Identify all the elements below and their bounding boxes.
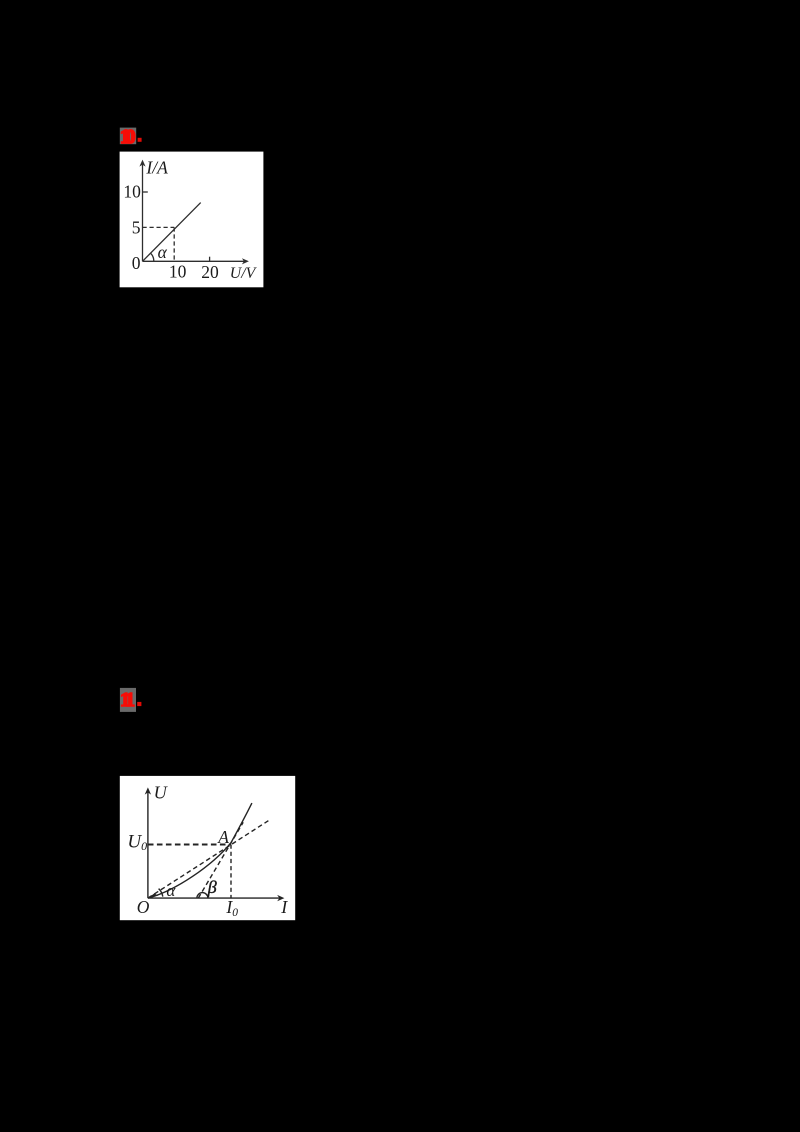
chart 1 white panel <box>120 152 264 288</box>
chart1 dashed line I=5 <box>143 226 175 228</box>
chart2 secant arrowhead at origin <box>148 893 158 898</box>
chart2 y-axis <box>147 792 149 898</box>
svg-text:5: 5 <box>132 217 141 237</box>
chart2 dashed vertical I0 line <box>230 845 232 899</box>
chart1 x-axis <box>143 260 245 262</box>
badge Q10 background box <box>120 128 136 145</box>
chart1 x-axis arrowhead <box>242 258 249 264</box>
chart1 dashed line U=10 <box>173 227 175 261</box>
svg-text:β: β <box>207 877 217 897</box>
svg-text:A: A <box>217 827 229 847</box>
chart1 tick at I=10 <box>143 191 148 193</box>
chart2 dashed tangent line at A <box>198 822 243 898</box>
svg-text:O: O <box>137 897 150 917</box>
chart1 y-axis <box>142 164 144 261</box>
chart2 x-axis arrowhead <box>277 895 284 901</box>
svg-text:U/V: U/V <box>230 265 258 282</box>
svg-text:U: U <box>154 783 169 803</box>
svg-text:20: 20 <box>201 262 219 282</box>
svg-text:I: I <box>280 897 288 917</box>
chart2 y-axis arrowhead <box>145 787 151 794</box>
chart1 tick at U=20 <box>209 257 211 262</box>
chart2 x-axis <box>148 897 280 899</box>
chart2 dashed secant line OA <box>148 821 269 899</box>
badge Q10 red period <box>138 138 142 142</box>
badge Q11 background box <box>120 688 136 712</box>
chart1 angle alpha arc <box>150 253 154 261</box>
chart1 line I=0.5U <box>143 203 201 262</box>
svg-text:α: α <box>158 242 168 262</box>
chart2 U-I curve <box>148 803 252 898</box>
chart2 dashed horizontal U0 line <box>148 844 231 846</box>
svg-text:10: 10 <box>123 182 141 202</box>
svg-text:0: 0 <box>132 253 141 273</box>
chart1 y-axis arrowhead <box>139 160 145 167</box>
chart 2 white panel <box>120 776 295 920</box>
svg-text:I/A: I/A <box>145 157 168 177</box>
chart2 angle beta arc <box>197 893 208 899</box>
svg-text:α: α <box>166 881 176 900</box>
chart2 angle alpha arc <box>159 889 163 897</box>
svg-text:10: 10 <box>169 262 187 282</box>
badge Q11 red period <box>137 702 141 706</box>
